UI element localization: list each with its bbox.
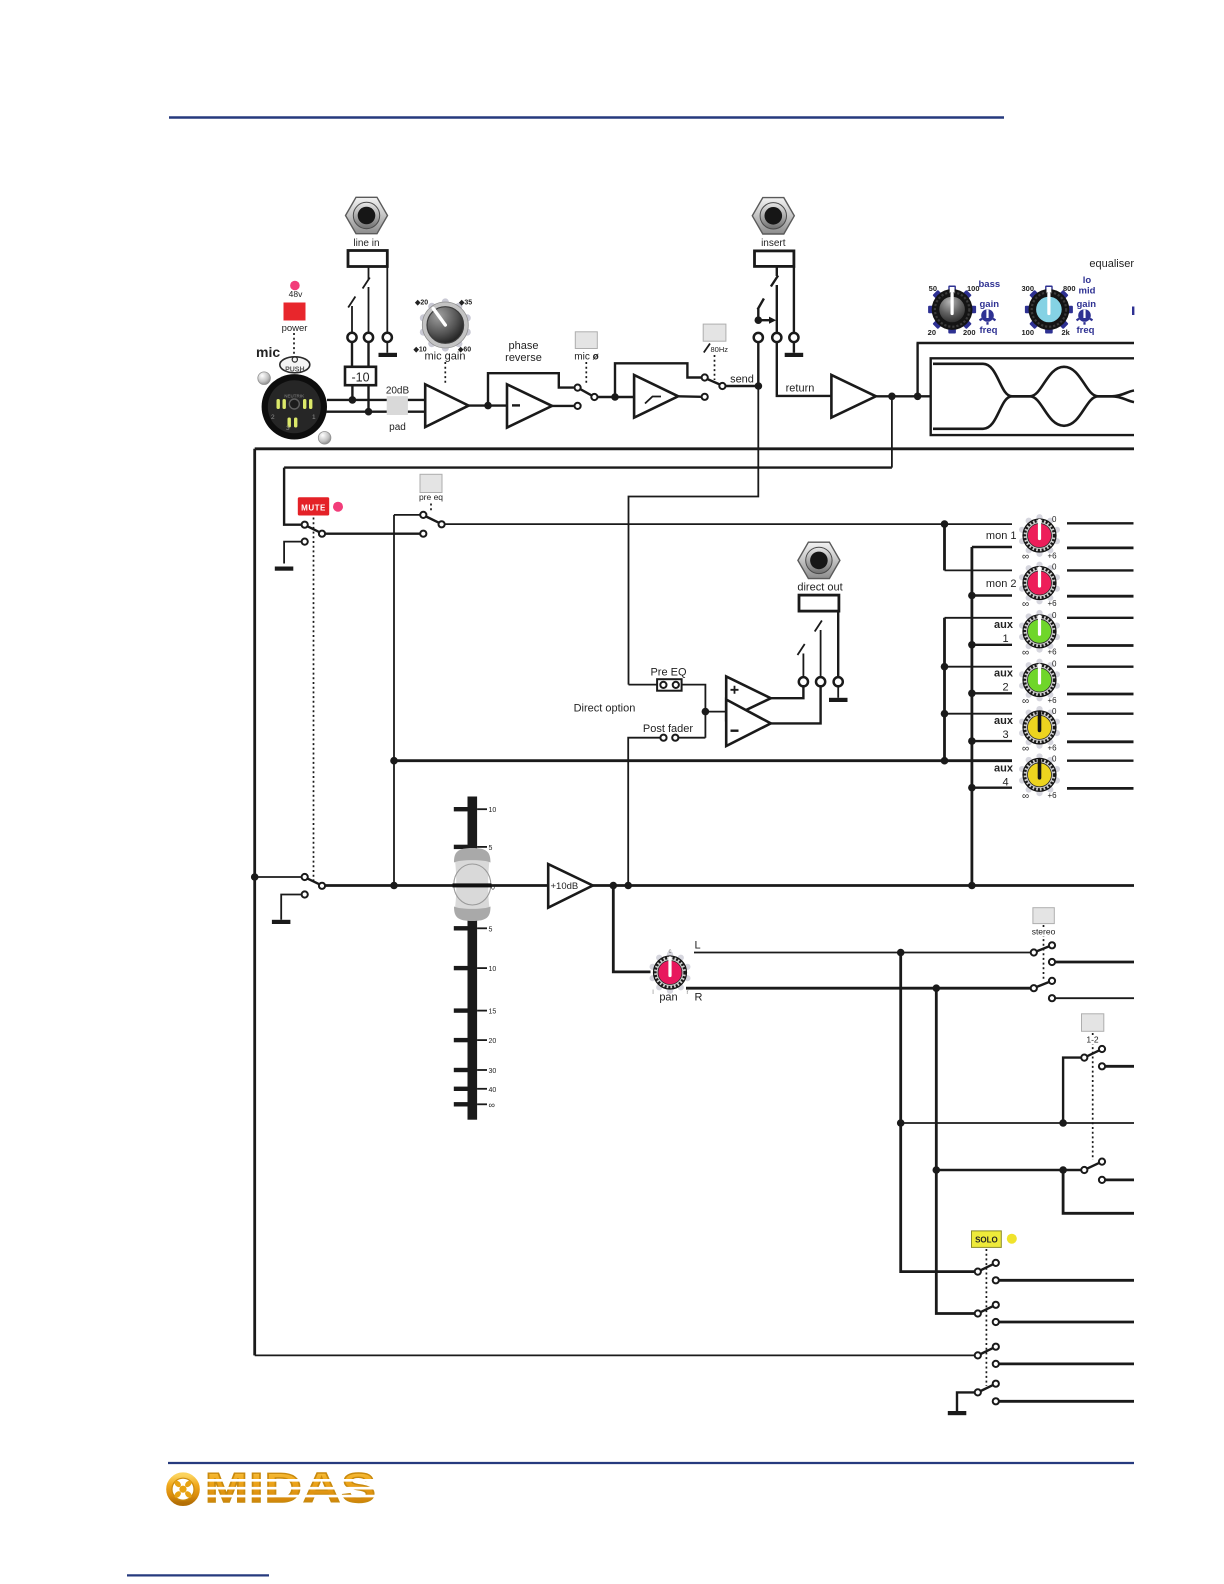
L wire [694,952,1031,954]
contact circle line-in a [347,333,356,342]
wires circles to -10 box [351,342,353,367]
junction post-fader riser [624,882,632,890]
80Hz switch [702,374,708,380]
XLR mic connector [262,374,327,439]
insert contact sleeve [789,333,798,342]
1-2 label [1085,1035,1101,1044]
svg-text:800: 800 [1063,284,1076,293]
junction eq-out branch [888,393,896,401]
wire eq out down to H2 [891,396,893,467]
filter bypass wire [615,363,702,397]
svg-text:mic gain: mic gain [425,351,466,363]
svg-text:4: 4 [1002,777,1008,789]
mon1 right wires [1067,522,1134,524]
svg-text:NEUTRIK: NEUTRIK [284,394,305,399]
junction 1-2 lower feed [933,1166,941,1174]
svg-text:MUTE: MUTE [301,504,326,513]
svg-text:100: 100 [1021,328,1034,337]
svg-text:bass: bass [979,279,1001,290]
junction phase bypass [484,402,492,410]
EQ bypass top [917,342,1135,344]
solo switch 1 [975,1269,981,1275]
aux1 lower wire [972,644,1012,646]
direct out hex jack [798,542,840,578]
svg-text:3: 3 [286,425,290,432]
wire amp- out [771,687,821,723]
svg-text:mon 1: mon 1 [986,530,1017,542]
dotted mute line [313,518,315,882]
wire XLR hot out [327,399,425,401]
pan knob [650,949,691,996]
svg-text:+6: +6 [1048,791,1058,800]
junction send [755,382,763,390]
fader mute lever [308,879,320,885]
svg-text:0: 0 [1052,563,1057,572]
wire fader feed [325,884,548,887]
svg-text:200: 200 [963,328,976,337]
wire to direct amp [705,711,726,713]
svg-text:1-2: 1-2 [1086,1035,1099,1045]
junction -10 hot [349,396,357,404]
EQ bypass left edge [916,343,918,396]
H1 eq lower bypass line [255,447,1134,450]
fader ticks right + scale [477,809,487,1104]
svg-text:30: 30 [489,1068,497,1075]
svg-text:PUSH: PUSH [285,367,304,374]
wire border to fader mute contact [255,876,302,878]
junction pad cold [365,408,373,416]
solo switch 2 [975,1310,981,1316]
aux4 knob [1019,753,1060,796]
svg-text:r: r [687,990,689,996]
lo mid scale labels [1021,284,1075,337]
fader ticks left [454,807,468,1107]
svg-text:+6: +6 [1048,743,1058,752]
stereo switch R [1031,985,1037,991]
mon2 lower wire [972,594,1012,596]
mute lower contact [302,539,308,545]
junction A1 top [941,520,949,528]
wire post fader right [679,737,706,739]
svg-text:5: 5 [489,845,493,852]
svg-text:∞: ∞ [1022,647,1029,658]
svg-text:aux: aux [994,668,1014,680]
lo mid gain knob glyph [1077,309,1093,325]
junction 1-2 lower branch [1059,1166,1067,1174]
mute lower to ground [284,542,301,564]
svg-text:1: 1 [1002,633,1008,645]
1-2 dotted [1092,1033,1094,1160]
wire amp+ out [771,687,804,698]
pre-EQ tap wire down from send [629,386,759,685]
send wire [726,385,759,387]
insert jack body rect [755,251,794,267]
wire 1-2 lower feed [936,1169,1081,1171]
aux4 lower wire [972,787,1012,789]
aux1 upper feed [945,617,1013,619]
svg-text:l: l [652,990,653,996]
aux post feed wire [394,759,1012,762]
fader track [468,797,478,1120]
junction aux B line [968,882,976,890]
H2 drop to mute [284,468,301,525]
svg-text:0: 0 [1052,707,1057,716]
svg-text:gain: gain [1077,299,1097,310]
dotted power-to-XLR [293,333,295,356]
direct out sleeve ground [837,686,839,698]
dotted pre eq [430,504,432,513]
wire jack sleeve down [386,267,388,334]
svg-text:aux: aux [994,763,1014,775]
pre eq lever [426,517,439,523]
aux line A2 (post feed aux1-3) [943,618,946,761]
svg-text:R: R [695,992,703,1004]
svg-text:50: 50 [929,284,937,293]
mon1 knob [1019,514,1060,557]
aux3 lower wire [972,740,1012,742]
solo switch 3 [255,1354,975,1356]
line in jack [346,197,388,233]
direct out jack rect [799,595,839,611]
fader mute top contact [302,874,308,880]
mon1 lower wire [972,546,1012,548]
direct out contact a [799,677,808,686]
solo LED [1007,1234,1017,1244]
svg-text:phase: phase [509,340,539,352]
wire preEQ connector right [682,685,706,738]
insert send lever [758,299,764,317]
return wire [777,342,832,396]
mute LED [333,502,343,512]
direct out amp + [726,677,771,720]
pre eq lower contact [420,531,426,537]
svg-text:+6: +6 [1048,599,1058,608]
EQ inner box [931,358,1134,435]
EQ response curve bottom [933,396,1134,429]
insert sleeve ground [793,342,795,353]
svg-text:0: 0 [491,885,495,892]
SOLO button [972,1231,1002,1248]
svg-text:mon 2: mon 2 [986,578,1017,590]
hi mid knob cut mark [1132,307,1134,316]
bass gain knob glyph [980,309,996,325]
-10 box [345,367,376,385]
svg-text:line in: line in [353,238,379,249]
aux1 right wires [1067,617,1134,619]
svg-text:mid: mid [1079,286,1096,297]
L drop vertical to solo1 [901,953,975,1272]
Pre EQ connector [657,679,682,691]
lo mid knob [1025,286,1073,334]
top rule [169,116,1004,119]
junction R drop [933,984,941,992]
wire 1-2 lower branch down [1063,1170,1134,1213]
svg-text:SOLO: SOLO [975,1236,998,1245]
aux2 lower wire [972,692,1012,694]
svg-text:insert: insert [761,238,786,249]
junction eq-bypass branch [914,393,922,401]
stereo dotted [1043,925,1045,980]
XLR screw top-left [258,372,271,385]
mon2 right wires [1067,569,1134,571]
aux3 right wires [1067,713,1134,715]
aux3 knob [1019,706,1060,749]
line in jack body rect [348,251,387,267]
svg-text:+6: +6 [1048,696,1058,705]
mute switch top contact [302,522,308,528]
bass scale labels [928,284,980,337]
svg-text:direct out: direct out [797,582,842,594]
svg-text:◆20: ◆20 [414,300,428,307]
svg-text:20dB: 20dB [386,386,410,397]
svg-text:power: power [282,323,308,334]
ground under line-in c [386,342,388,353]
wire phase amp out [552,405,574,407]
svg-text:Pre EQ: Pre EQ [650,667,687,679]
svg-text:∞: ∞ [489,1100,495,1110]
solo switch 4 [975,1389,981,1395]
junction aux feed [390,757,398,765]
80Hz glyph [704,344,710,353]
svg-text:send: send [730,374,754,386]
insert tip lever [771,266,778,333]
line-in mute lever [348,297,355,334]
send normal arrow [758,319,769,321]
big box left border [253,449,256,1356]
junction filter bypass [611,393,619,401]
pan feed wire [613,886,650,972]
mic amp U1 [425,384,468,427]
solo dotted [985,1249,987,1386]
EQ response curve top [933,364,1134,397]
contact circle line-in b [364,333,373,342]
power switch [284,303,306,321]
R drop vertical to solo2 [936,988,975,1313]
1-2 box [1082,1014,1104,1032]
svg-text:aux: aux [994,715,1014,727]
mute switch common [319,531,325,537]
direct out sleeve wire [837,611,839,677]
direct contact b lever [815,621,822,678]
junction A2 dots [941,663,949,671]
fader mute lower contact [302,891,308,897]
svg-text:+6: +6 [1048,647,1058,656]
svg-text:aux: aux [994,619,1014,631]
svg-text:pre eq: pre eq [419,492,443,502]
insert jack [752,198,794,234]
XLR screw bottom-right [318,432,331,445]
aux2 right wires [1067,666,1134,668]
mon2 knob [1019,562,1060,605]
return amp [831,375,876,418]
wire preEQ connector left [629,684,658,686]
post fader contacts [660,735,666,741]
svg-text:freq: freq [980,325,998,336]
svg-text:return: return [786,383,815,395]
fader mute common [319,883,325,889]
svg-text:+6: +6 [1048,552,1058,561]
fader mute switch: border junction [251,873,259,881]
mic gain scale labels [413,300,473,354]
pre-eq feed corner from tap [394,514,420,516]
junction fader feed [390,882,398,890]
svg-text:+10dB: +10dB [551,881,579,892]
svg-text:stereo: stereo [1032,927,1056,937]
jack tip lever [363,267,370,334]
MIDAS wordmark [205,1464,377,1511]
aux1 knob [1019,610,1060,653]
wire mic phase out [598,396,635,398]
svg-text:mic: mic [256,344,280,360]
wire send contact down to send junction [757,342,759,386]
svg-text:∞: ∞ [1022,743,1029,754]
svg-text:300: 300 [1021,284,1034,293]
aux3 upper feed [945,713,1013,715]
mute lever [308,526,320,532]
svg-text:0: 0 [1052,515,1057,524]
svg-text:pan: pan [659,992,677,1004]
svg-text:-10: -10 [351,371,369,385]
svg-text:∞: ∞ [1022,696,1029,707]
direct contact a lever [798,644,805,677]
+10dB amp [548,864,593,908]
aux line A1 (pre feed mon2) [943,524,946,570]
wire return amp to EQ [876,395,930,397]
aux knob scale labels [1022,515,1057,802]
pre eq switch top contact [420,512,426,518]
wires -10 box to input wires [351,385,353,400]
H2 eq output line [284,466,892,468]
main post-fader bus [593,884,1134,887]
20dB pad box [387,396,408,415]
dotted 80Hz [714,355,716,380]
svg-text:mic ø: mic ø [574,352,599,363]
bottom short rule [127,1574,269,1576]
stereo switch L [1031,949,1037,955]
svg-text:Direct option: Direct option [574,703,636,715]
fader cap [453,848,492,921]
svg-text:pad: pad [389,422,406,433]
junction L drop [897,949,905,957]
svg-text:1: 1 [312,414,316,421]
solo 4 ground [957,1392,975,1411]
svg-text:reverse: reverse [505,352,542,364]
R wire [686,987,1031,990]
mic gain knob [420,298,471,351]
phase bypass wire [488,373,574,405]
aux2 upper feed [945,666,1013,668]
pre-eq tap vertical [393,515,395,886]
svg-text:freq: freq [1077,325,1095,336]
contact circle line-in c [383,333,392,342]
line B junction dots [968,592,976,600]
svg-text:∞: ∞ [1022,552,1029,563]
mic phase switch box [575,332,597,349]
junction 1-2 upper feed [897,1119,905,1127]
MUTE button [298,497,329,515]
dotted mic phase [585,362,587,385]
post fader riser [628,738,660,886]
MIDAS emblem [169,1475,197,1503]
pre eq box [420,474,442,492]
fader mute lower ground [281,895,301,920]
junction direct amp in [702,708,710,716]
svg-text:lo: lo [1083,275,1092,286]
svg-text:0: 0 [1052,660,1057,669]
direct out contact c [834,677,843,686]
direct out amp - [726,700,771,747]
svg-text:L: L [695,940,701,952]
svg-text:Post fader: Post fader [643,723,693,735]
junction on 1-2 upper drop [1059,1119,1067,1127]
stereo box [1033,908,1054,924]
bottom rule [168,1462,1134,1464]
svg-text:20: 20 [928,328,936,337]
svg-text:0: 0 [1052,754,1057,763]
wire XLR cold out [326,411,425,413]
insert sleeve wire down [793,266,795,333]
insert contact send [754,333,763,342]
junction insert send [755,316,763,324]
insert contact return [772,333,781,342]
aux2 knob [1019,659,1060,702]
svg-text:3: 3 [1002,729,1008,741]
stereo label [1031,927,1056,936]
aux4 right wires [1067,760,1134,762]
80Hz switch box [703,324,726,341]
svg-text:5: 5 [489,926,493,933]
svg-text:gain: gain [980,299,1000,310]
junction pan drop [610,882,618,890]
dotted mic gain to amp [444,362,446,384]
svg-text:∞: ∞ [1022,599,1029,610]
svg-text:c: c [669,949,672,955]
48v LED [290,281,300,291]
svg-text:20: 20 [489,1038,497,1045]
wire 1-2 upper drop [1063,1058,1081,1123]
80Hz filter amp [634,375,678,418]
svg-text:0: 0 [1052,611,1057,620]
1-2 switch upper [1081,1055,1087,1061]
svg-text:2: 2 [271,414,275,421]
pre eq switch common [439,521,445,527]
mon2 upper feed [945,569,1013,571]
wire pre-eq out to mon1 [445,523,1012,525]
svg-text:80Hz: 80Hz [711,345,729,354]
wire mic amp to phase amp [469,404,507,406]
direct out contact b [816,677,825,686]
aux line B (lower terminals) [971,547,974,886]
svg-text:10: 10 [489,807,497,814]
svg-text:∞: ∞ [1022,791,1029,802]
1-2 switch lower [1081,1167,1087,1173]
XLR push tab [280,357,310,374]
svg-text:48v: 48v [289,289,303,299]
bass knob [928,286,976,334]
wire mute common to pre-eq lower [325,533,420,535]
phase reverse amp [507,384,552,427]
svg-text:◆35: ◆35 [458,300,472,307]
svg-text:2k: 2k [1062,328,1071,337]
svg-text:2: 2 [1002,682,1008,694]
svg-text:15: 15 [489,1009,497,1016]
wire 1-2 upper feed [901,1122,1134,1124]
mic phase switch [575,385,581,391]
svg-text:40: 40 [489,1087,497,1094]
svg-text:10: 10 [489,966,497,973]
svg-text:equaliser: equaliser [1089,258,1134,270]
